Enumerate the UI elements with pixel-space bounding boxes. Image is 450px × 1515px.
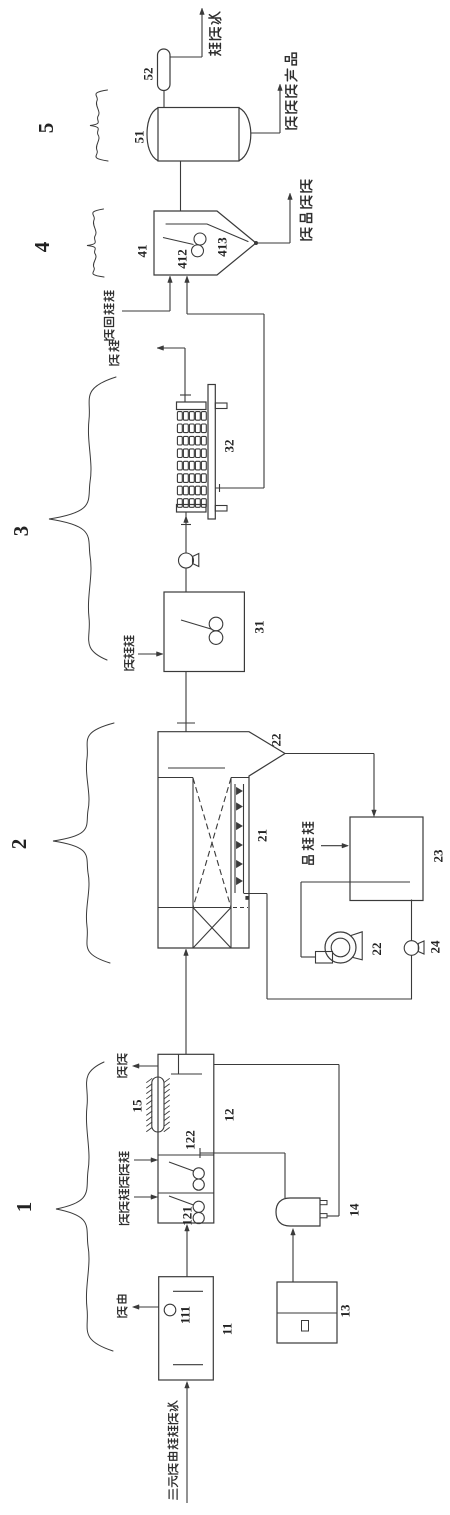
label fuzha: [117, 1054, 127, 1077]
packing section walls: [192, 778, 194, 949]
label yingyangji: [302, 822, 313, 864]
label lengningshui: [209, 12, 221, 55]
svg-text:23: 23: [431, 849, 446, 863]
svg-text:21: 21: [255, 829, 270, 842]
brace stage 3: [49, 377, 116, 660]
agitator of 41: [163, 238, 194, 245]
svg-text:412: 412: [175, 249, 190, 269]
flotation unit 12: [158, 1054, 214, 1223]
wire nutrient feed into 23: [321, 845, 346, 847]
svg-text:2: 2: [7, 839, 31, 850]
bioreactor 2 outline with outlet cone: [158, 732, 285, 948]
blower pump 22: [351, 932, 362, 960]
vessel 52 condenser capsule: [158, 49, 171, 91]
svg-text:14: 14: [347, 1203, 362, 1217]
wire air from 13 into 14 with arrow: [292, 1231, 294, 1282]
wire main flow 12 up to reactor with arrow: [185, 950, 187, 1054]
wire coagulant feed arrows: [134, 1159, 155, 1161]
vessel 31 adsorption stirred tank: [164, 592, 244, 672]
agitator of 31: [181, 620, 211, 629]
brace stage 4: [87, 209, 104, 277]
nutrient tank 23: [350, 817, 423, 901]
tick on filtrate line: [219, 484, 221, 492]
svg-text:1: 1: [12, 1202, 36, 1213]
wire scum out with arrow: [135, 1065, 158, 1067]
wire aeration loop from reactor: [244, 893, 268, 895]
svg-text:111: 111: [178, 1306, 193, 1324]
compartment dividers of 12: [158, 1154, 214, 1156]
wire 31 down to bioreactor with flange tick: [185, 672, 187, 732]
svg-text:15: 15: [130, 1099, 145, 1113]
svg-text:24: 24: [428, 940, 443, 954]
flow meter 24: [404, 941, 419, 956]
label xifuji: [124, 636, 134, 670]
wire condensate out with arrow: [170, 56, 202, 58]
svg-text:11: 11: [220, 1323, 235, 1335]
scraper 15 capsule with teeth: [152, 1077, 164, 1132]
filter press crossbar top: [215, 403, 227, 409]
air compressor 13: [277, 1282, 337, 1343]
oil skimmer circle 111: [164, 1304, 176, 1316]
svg-text:31: 31: [252, 621, 267, 634]
packing cross X upper (dashed): [193, 778, 231, 908]
label fuyou: [117, 1295, 127, 1317]
nozzles of 14: [320, 1201, 327, 1205]
label lvbing: [109, 341, 119, 365]
label hunningji: [119, 1152, 129, 1224]
svg-text:52: 52: [141, 68, 156, 81]
packing cross X lower: [193, 908, 231, 949]
filter press end plate bottom: [177, 505, 207, 513]
svg-text:32: 32: [222, 440, 237, 453]
wire adsorbent feed into 31: [138, 653, 161, 655]
svg-text:413: 413: [215, 237, 230, 257]
wire 12 to pressure vessel 14: [199, 1148, 201, 1158]
wire filter cake out with arrow: [157, 346, 164, 351]
agitator 122 compartment: [169, 1162, 194, 1171]
wire 51 down to 41: [180, 161, 182, 211]
label liusuanna: [285, 53, 297, 129]
wire reactor cone to nutrient tank 23: [285, 753, 374, 755]
wire down to blower 22: [300, 882, 302, 957]
wire floating oil out with arrow: [135, 1306, 159, 1308]
pump feeding filter press: [179, 553, 194, 568]
aeration pipe 21 with nozzles: [234, 784, 236, 893]
packing section top boundary: [158, 777, 193, 779]
pressure vessel 14 capsule: [276, 1198, 320, 1226]
svg-text:51: 51: [132, 131, 147, 144]
vessel 51 crystallizer drum: [158, 108, 239, 162]
agitator 121 compartment: [169, 1196, 194, 1205]
svg-text:122: 122: [183, 1130, 198, 1150]
liquid level line in reactor top: [168, 767, 225, 769]
svg-text:41: 41: [135, 245, 150, 258]
svg-text:4: 4: [30, 241, 54, 252]
vessel 41 reactor-settler pentagon: [154, 211, 256, 275]
wire recycle water to 12 inlet: [214, 1064, 339, 1066]
inlet baffle in 12: [178, 1054, 180, 1074]
wire raw wastewater inlet with arrow: [186, 1383, 188, 1503]
oil separator 11: [159, 1277, 214, 1380]
wire 52 to 51: [163, 91, 165, 108]
filter press 32 frame beam: [208, 385, 215, 520]
wire filtrate from press to 41: [215, 487, 264, 489]
filter press plate stack: [177, 412, 206, 508]
flange tick filter inlet top: [180, 394, 191, 396]
svg-text:22: 22: [269, 734, 284, 747]
svg-text:13: 13: [338, 1304, 353, 1318]
label fulvsuanna: [300, 180, 312, 240]
weir line inside 41: [166, 224, 248, 242]
wire filtrate return into 41: [186, 278, 188, 314]
label sanyuan: [168, 1401, 178, 1499]
svg-text:5: 5: [34, 123, 58, 134]
wire 51 to sodium sulfate product with arrow: [251, 132, 280, 134]
filter press crossbar bottom: [215, 506, 227, 512]
wire fluoride agent feed into 41: [122, 310, 170, 312]
svg-text:22: 22: [369, 943, 384, 956]
brace stage 1: [56, 1062, 113, 1351]
label fuhuishouji: [104, 291, 114, 340]
svg-text:12: 12: [222, 1109, 237, 1122]
brace stage 2: [53, 723, 114, 963]
svg-text:121: 121: [180, 1206, 195, 1226]
svg-text:3: 3: [9, 526, 33, 537]
brace stage 5: [90, 90, 108, 161]
wire 41 tip to product arrow: [254, 241, 258, 245]
section divider line: [158, 907, 231, 909]
wire tank 23 dip line: [301, 881, 410, 883]
wire 11 up to 12 with arrow: [186, 1226, 188, 1277]
filter press end plate top: [177, 402, 207, 410]
wire press feed with arrow and tick: [185, 512, 187, 553]
